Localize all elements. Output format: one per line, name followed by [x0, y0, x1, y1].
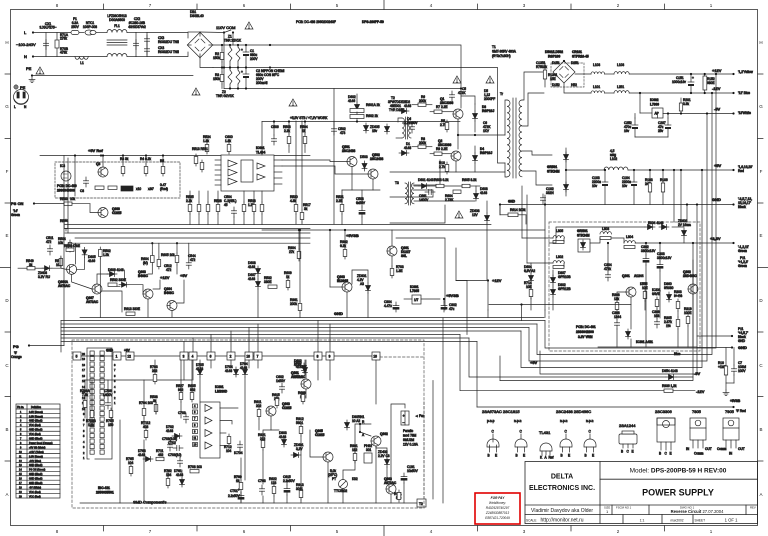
wire primary return rail — [264, 88, 461, 90]
svg-text:GR501: GR501 — [547, 165, 557, 169]
wire Q2 emitter to return — [455, 161, 457, 172]
svg-text:'1,2'Yellow: '1,2'Yellow — [738, 70, 753, 74]
ground symbol br — [723, 390, 729, 396]
svg-text:ELECTRONICS INC.: ELECTRONICS INC. — [529, 485, 595, 492]
svg-text:+5V: +5V — [530, 360, 538, 365]
pad 10 — [245, 352, 253, 360]
svg-text:R936 1,2k: R936 1,2k — [662, 384, 677, 388]
wires fan left — [342, 489, 344, 504]
svg-text:'12' Blue: '12' Blue — [738, 91, 750, 95]
svg-text:D503: D503 — [360, 155, 368, 159]
opamp A2 — [228, 169, 237, 176]
wire bus y243 — [68, 242, 310, 244]
wire T1 sec taps — [522, 93, 544, 126]
svg-text:2SC2438: 2SC2438 — [342, 149, 356, 153]
pad 4 — [189, 352, 197, 360]
svg-text:B: B — [585, 454, 587, 458]
svg-text:x10: x10 — [136, 187, 141, 191]
svg-text:GND (Black): GND (Black) — [29, 420, 43, 423]
wire pad10 up — [248, 328, 250, 353]
svg-text:1%: 1% — [666, 324, 671, 328]
svg-text:K02: K02 — [352, 477, 358, 481]
svg-text:Red: Red — [738, 169, 744, 173]
svg-text:A1244: A1244 — [634, 274, 644, 278]
svg-text:H52: H52 — [571, 83, 577, 87]
wire stair2 -12V — [537, 93, 712, 355]
wire -12V feed down — [460, 335, 664, 391]
svg-text:RGP10J: RGP10J — [480, 151, 492, 155]
svg-text:3,2V: 3,2V — [296, 447, 303, 451]
svg-text:WebMoney:: WebMoney: — [489, 501, 506, 505]
wire stair1 +12V — [545, 74, 716, 348]
wire pad10b down — [375, 360, 377, 404]
svg-text:273k: 273k — [60, 37, 67, 41]
svg-text:PS ON: PS ON — [11, 201, 24, 206]
bridge dashed outline — [551, 63, 584, 87]
wire gnd drop2 — [544, 310, 546, 318]
svg-text:SHEET: SHEET — [695, 519, 706, 523]
wire L rail — [33, 32, 74, 34]
svg-text:4148: 4148 — [296, 365, 303, 369]
svg-text:E: E — [5, 233, 8, 238]
svg-text:134: 134 — [166, 473, 172, 477]
dashed inner partition — [423, 402, 425, 508]
pad 6 — [207, 352, 215, 360]
svg-text:RGP10J: RGP10J — [482, 109, 494, 113]
svg-text:R7 2.2E: R7 2.2E — [436, 105, 448, 109]
svg-text:◄ Fan: ◄ Fan — [415, 414, 425, 418]
svg-text:PCB: DC-401: PCB: DC-401 — [576, 325, 596, 329]
junction dots on rails — [221, 44, 223, 46]
wire mid rail — [213, 67, 270, 69]
svg-text:150k: 150k — [213, 56, 220, 60]
svg-text:10v: 10v — [622, 184, 628, 188]
svg-text:IC601: IC601 — [256, 146, 265, 150]
svg-text:+5VSB: +5VSB — [730, 399, 741, 403]
svg-text:1.8k: 1.8k — [203, 139, 209, 143]
svg-text:110V COM: 110V COM — [216, 25, 236, 30]
wire t2 drop — [432, 381, 434, 500]
svg-text:FOR PAY: FOR PAY — [491, 496, 506, 500]
svg-text:STK24M: STK24M — [547, 170, 560, 174]
svg-text:472: 472 — [190, 258, 196, 262]
svg-text:10 A2: 10 A2 — [352, 419, 360, 423]
svg-text:+: + — [241, 48, 243, 52]
dashed box VRM — [549, 222, 700, 351]
svg-text:R0332DU TNII: R0332DU TNII — [158, 50, 179, 54]
svg-text:TL431: TL431 — [539, 430, 551, 435]
pad 8 — [314, 352, 322, 360]
package TO-220 7805 — [686, 418, 712, 456]
node P11 GND — [731, 335, 733, 337]
svg-text:D501/LD502: D501/LD502 — [545, 50, 563, 54]
svg-text:3.2V RU: 3.2V RU — [38, 275, 51, 279]
svg-text:Paraflo: Paraflo — [403, 429, 413, 433]
svg-text:CR101: CR101 — [572, 50, 582, 54]
wire GND rail — [500, 204, 734, 206]
svg-text:R532 330E: R532 330E — [110, 278, 126, 282]
svg-text:10: 10 — [373, 355, 377, 359]
wire +310V rail — [270, 45, 461, 108]
svg-text:GND (Black): GND (Black) — [29, 464, 43, 467]
svg-text:1:1: 1:1 — [640, 519, 645, 523]
svg-text:PS ON (Green): PS ON (Green) — [29, 469, 46, 472]
svg-text:IC704: IC704 — [234, 451, 243, 455]
svg-text:4146: 4146 — [348, 99, 355, 103]
wires fan right — [386, 467, 388, 484]
transistor Q4 opto — [61, 171, 71, 181]
svg-text:GND: GND — [738, 345, 747, 350]
wire ref rail — [40, 155, 310, 157]
svg-text:RGP160: RGP160 — [548, 55, 560, 59]
svg-text:D152: D152 — [552, 83, 560, 87]
svg-text:-12V (Blue): -12V (Blue) — [29, 460, 41, 463]
svg-text:R513 R511: R513 R511 — [192, 147, 208, 151]
ATX connector body — [87, 348, 112, 459]
svg-text:D3SBL40: D3SBL40 — [190, 14, 204, 18]
svg-text:Q301: Q301 — [622, 274, 630, 278]
svg-text:1.5k: 1.5k — [103, 253, 109, 257]
svg-text:+12V: +12V — [712, 68, 722, 73]
svg-text:N: N — [24, 54, 27, 59]
svg-text:+5V Ref: +5V Ref — [88, 148, 103, 153]
fan connector — [401, 411, 409, 425]
wire aux vertical — [486, 201, 488, 213]
comparator A — [205, 405, 212, 412]
svg-text:4148: 4148 — [404, 104, 411, 108]
svg-text:GND: GND — [712, 197, 721, 202]
svg-text:R605 10k: R605 10k — [161, 253, 175, 257]
svg-text:6: 6 — [210, 355, 212, 359]
svg-text:9R080: 9R080 — [664, 286, 674, 290]
svg-text:7905: 7905 — [725, 409, 735, 414]
flipflop block — [241, 160, 253, 182]
svg-text:C8: C8 — [80, 189, 84, 193]
pad 10b — [372, 352, 380, 360]
package TO-220 7905 — [717, 418, 745, 456]
svg-text:Orange: Orange — [11, 355, 22, 359]
svg-text:200V: 200V — [250, 57, 258, 61]
svg-text:E: E — [495, 454, 497, 458]
svg-text:1x50V: 1x50V — [276, 379, 286, 383]
svg-text:3.2V VRM: 3.2V VRM — [578, 335, 593, 339]
pad 5 — [73, 352, 81, 360]
svg-text:PG: PG — [13, 344, 19, 349]
vertical left pair — [63, 156, 65, 346]
svg-text:-5V: -5V — [714, 107, 721, 112]
svg-text:B: B — [659, 452, 661, 456]
svg-text:Vladimir Davydov aka Older: Vladimir Davydov aka Older — [531, 508, 593, 514]
svg-text:5601: 5601 — [296, 421, 303, 425]
svg-text:B: B — [561, 454, 563, 458]
TL431 outline — [540, 443, 554, 460]
svg-text:Definition: Definition — [31, 406, 42, 409]
svg-text:GND: GND — [738, 339, 746, 343]
warning triangle primary3 — [455, 211, 463, 218]
svg-text:R0332DU TNII: R0332DU TNII — [158, 40, 179, 44]
wire bottom rail — [224, 88, 264, 90]
svg-text:4148: 4148 — [279, 435, 286, 439]
svg-text:45: 45 — [224, 203, 228, 207]
svg-text:200k: 200k — [419, 99, 426, 103]
svg-text:150: 150 — [108, 423, 114, 427]
svg-text:10k: 10k — [70, 197, 76, 201]
svg-text:E13015: E13015 — [337, 279, 348, 283]
svg-text:8: 8 — [317, 355, 319, 359]
svg-text:9MU2M: 9MU2M — [403, 438, 415, 442]
svg-text:E: E — [759, 233, 762, 238]
svg-text:B: B — [5, 427, 8, 432]
svg-text:12V: 12V — [472, 213, 479, 217]
svg-text:GND (Black): GND (Black) — [29, 429, 43, 432]
svg-text:9+4%: 9+4% — [674, 294, 682, 298]
svg-text:4.47x: 4.47x — [384, 304, 392, 308]
svg-text:VCC (Red): VCC (Red) — [29, 433, 41, 436]
svg-text:GND (Black): GND (Black) — [29, 482, 43, 485]
svg-text:+12V: +12V — [492, 278, 502, 283]
svg-text:GPR10B: GPR10B — [558, 275, 571, 279]
diode Z0403 — [42, 266, 52, 271]
svg-text:4148: 4148 — [166, 429, 173, 433]
wire bus GND pwm — [65, 224, 491, 226]
svg-text:GRN01: GRN01 — [577, 229, 588, 233]
svg-text:L304: L304 — [626, 235, 633, 239]
svg-text:'13'White: '13'White — [738, 111, 751, 115]
wire half-bridge mid rail — [270, 68, 505, 164]
svg-text:A673AC: A673AC — [86, 300, 99, 304]
svg-text:B: B — [488, 454, 490, 458]
wire -12V rail — [629, 92, 733, 94]
svg-text:'9' Red: '9' Red — [736, 409, 746, 413]
svg-text:2.2k: 2.2k — [284, 129, 290, 133]
svg-text:16v: 16v — [624, 129, 630, 133]
wire T1 top feed — [458, 134, 505, 136]
warning triangle — [245, 22, 253, 29]
svg-text:D151: D151 — [552, 61, 560, 65]
svg-text:Green: Green — [738, 264, 747, 268]
svg-text:(Red): (Red) — [160, 187, 168, 191]
svg-text:TNR G2V1K: TNR G2V1K — [216, 94, 235, 98]
svg-text:STK24M: STK24M — [577, 234, 590, 238]
svg-text:VCC (Red): VCC (Red) — [29, 424, 41, 427]
pad 12 — [126, 352, 134, 360]
svg-text:Green: Green — [738, 249, 747, 253]
svg-text:~100-240V: ~100-240V — [16, 42, 36, 47]
svg-text:(6Y3x7x30H): (6Y3x7x30H) — [492, 54, 511, 58]
svg-text:2SC3306: 2SC3306 — [655, 409, 672, 414]
wire Q1 emitter chain — [457, 119, 459, 149]
svg-text:L302: L302 — [556, 255, 563, 259]
wire aux vertical x500 — [499, 205, 501, 215]
svg-text:C703: C703 — [178, 411, 186, 415]
svg-text:15v: 15v — [372, 129, 378, 133]
wire -12V from bridge — [564, 83, 591, 93]
output drivers — [257, 163, 265, 169]
svg-text:CT02: CT02 — [168, 441, 176, 445]
svg-text:9: 9 — [329, 355, 331, 359]
svg-text:C1815: C1815 — [112, 211, 122, 215]
top tick marks — [103, 4, 105, 10]
svg-text:2V 16ma: 2V 16ma — [678, 223, 691, 227]
svg-text:F: F — [6, 169, 9, 174]
ground PE — [29, 77, 35, 83]
svg-text:150k: 150k — [213, 77, 220, 81]
svg-text:A673AC: A673AC — [293, 375, 306, 379]
svg-text:+5VSB: +5VSB — [446, 293, 459, 298]
svg-text:+5V: +5V — [124, 349, 131, 353]
IC box LM339 — [200, 402, 220, 458]
svg-text:3.3V (Green): 3.3V (Green) — [29, 455, 43, 458]
svg-text:D954 4148: D954 4148 — [662, 369, 678, 373]
svg-text:+5V SB (Violet): +5V SB (Violet) — [29, 446, 46, 449]
svg-text:R613 330E: R613 330E — [124, 307, 140, 311]
svg-text:R602 2k: R602 2k — [366, 114, 378, 118]
svg-text:332N: 332N — [546, 191, 554, 195]
svg-text:3300x13V: 3300x13V — [657, 256, 672, 260]
svg-text:-5V (White): -5V (White) — [29, 487, 41, 490]
svg-text:4146: 4146 — [88, 259, 95, 263]
svg-text:472K: 472K — [458, 91, 466, 95]
small parts row inside dc480 — [95, 186, 104, 189]
svg-text:SMD Component's: SMD Component's — [133, 500, 166, 505]
svg-text:5: 5 — [76, 355, 78, 359]
svg-text:L1: L1 — [80, 61, 84, 65]
svg-text:+3,3V: +3,3V — [710, 236, 721, 241]
pad 9 — [326, 352, 334, 360]
wire pads down to LM339 — [183, 360, 185, 380]
svg-text:L7805: L7805 — [410, 289, 419, 293]
wire ps-on — [34, 203, 64, 205]
svg-text:IC801: IC801 — [215, 385, 224, 389]
svg-text:PCB: DC-488 2960200243F: PCB: DC-488 2960200243F — [296, 20, 336, 24]
wire standby box — [396, 238, 445, 310]
svg-text:47u: 47u — [449, 307, 455, 311]
svg-text:2.2E: 2.2E — [336, 199, 343, 203]
transistor outline TO92 #1 — [487, 430, 499, 458]
connector pins left column — [90, 351, 94, 460]
svg-text:DG0A6600: DG0A6600 — [109, 18, 125, 22]
svg-text:SMT-36RV 480A: SMT-36RV 480A — [492, 50, 517, 54]
wires vrm — [549, 227, 645, 243]
wire stair6 +3.3 — [500, 243, 693, 381]
svg-text:Green: Green — [11, 213, 20, 217]
svg-text:Q902: Q902 — [380, 432, 388, 436]
wire -5V rail — [663, 113, 734, 115]
node A — [359, 431, 361, 433]
svg-text:10: 10 — [246, 355, 250, 359]
svg-text:G: G — [759, 104, 763, 109]
pad 1 — [113, 352, 121, 360]
svg-text:7: 7 — [257, 355, 259, 359]
wire standby loop — [390, 205, 445, 223]
svg-text:n-p-n: n-p-n — [560, 419, 568, 423]
svg-text:G: G — [5, 104, 9, 109]
wire vrm feeds — [680, 170, 682, 222]
svg-text:100V: 100V — [738, 369, 746, 373]
svg-text:R3 3k: R3 3k — [120, 157, 129, 161]
wires fb — [85, 380, 192, 398]
svg-text:301: 301 — [366, 448, 372, 452]
svg-text:mod 78M: mod 78M — [403, 434, 417, 438]
svg-text:1KV: 1KV — [483, 129, 490, 133]
svg-text:2.2k: 2.2k — [186, 199, 192, 203]
svg-text:T2: T2 — [419, 502, 423, 506]
svg-text:6.2k: 6.2k — [340, 244, 346, 248]
right tick marks — [758, 73, 764, 75]
svg-text:10x50V: 10x50V — [407, 469, 419, 473]
svg-text:472: 472 — [46, 240, 52, 244]
wire pads rail — [77, 355, 380, 357]
wire N rail — [33, 56, 107, 58]
svg-text:R556 478E: R556 478E — [64, 244, 80, 248]
wires supupper — [257, 276, 259, 279]
svg-text:LM339D: LM339D — [215, 390, 228, 394]
wire mains y304 — [489, 304, 631, 306]
wire T1 aux tap2 — [526, 195, 528, 263]
svg-text:1 OF 1: 1 OF 1 — [725, 518, 738, 523]
svg-text:10SP-008: 10SP-008 — [83, 25, 97, 29]
svg-text:Comm: Comm — [717, 447, 727, 451]
svg-text:1: 1 — [116, 355, 118, 359]
svg-text:1.3E: 1.3E — [396, 269, 403, 273]
wire pad11 down — [442, 318, 444, 503]
svg-text:C1815: C1815 — [315, 433, 325, 437]
svg-text:+5V: +5V — [180, 273, 188, 278]
wire +5V rail — [628, 169, 734, 171]
inductor L1 — [75, 57, 88, 60]
wire +12V rail — [629, 73, 733, 75]
svg-text:D606 4148: D606 4148 — [108, 268, 124, 272]
svg-text:43H3DDYe2: 43H3DDYe2 — [128, 25, 146, 29]
diode D6L — [385, 124, 390, 134]
svg-text:27k: 27k — [289, 250, 295, 254]
wire top rail to C1 — [213, 44, 270, 46]
svg-text:2.73K: 2.73K — [445, 198, 454, 202]
svg-text:2000PF: 2000PF — [484, 97, 495, 101]
svg-text:PT: PT — [332, 477, 336, 481]
svg-text:D601 4143: D601 4143 — [418, 178, 434, 182]
svg-text:Model: DPS-200PB-59 H REV:00: Model: DPS-200PB-59 H REV:00 — [630, 468, 727, 475]
wires inside dc480 — [74, 156, 76, 197]
left tick marks — [5, 73, 11, 75]
svg-text:3: 3 — [183, 355, 185, 359]
svg-text:104: 104 — [226, 449, 232, 453]
connector T2 — [417, 499, 426, 507]
svg-text:7805: 7805 — [692, 409, 702, 414]
wire standby drop — [487, 310, 489, 318]
transistor outline TO92 #4 — [584, 430, 596, 458]
svg-text:L102: L102 — [610, 157, 617, 161]
svg-text:1344: 1344 — [614, 315, 621, 319]
svg-text:R402928740297: R402928740297 — [486, 506, 510, 510]
wire stair4 +5V — [521, 170, 702, 368]
svg-text:3.3V (Green): 3.3V (Green) — [29, 411, 43, 414]
svg-text:F: F — [760, 169, 763, 174]
svg-text:E: E — [592, 454, 594, 458]
svg-text:IC301 A431: IC301 A431 — [636, 340, 653, 344]
svg-text:GPR12B: GPR12B — [558, 287, 571, 291]
svg-text:Blue: Blue — [674, 352, 681, 356]
svg-text:B: B — [759, 427, 762, 432]
wire bus lines x7 — [61, 320, 545, 322]
wire pad3 up — [183, 342, 185, 353]
IC pins right — [274, 159, 282, 161]
svg-text:1.8k: 1.8k — [88, 423, 94, 427]
wire standby top — [391, 230, 393, 246]
wire drive row upper — [413, 160, 440, 185]
svg-text:L103: L103 — [593, 63, 600, 67]
svg-text:25v: 25v — [658, 129, 664, 133]
